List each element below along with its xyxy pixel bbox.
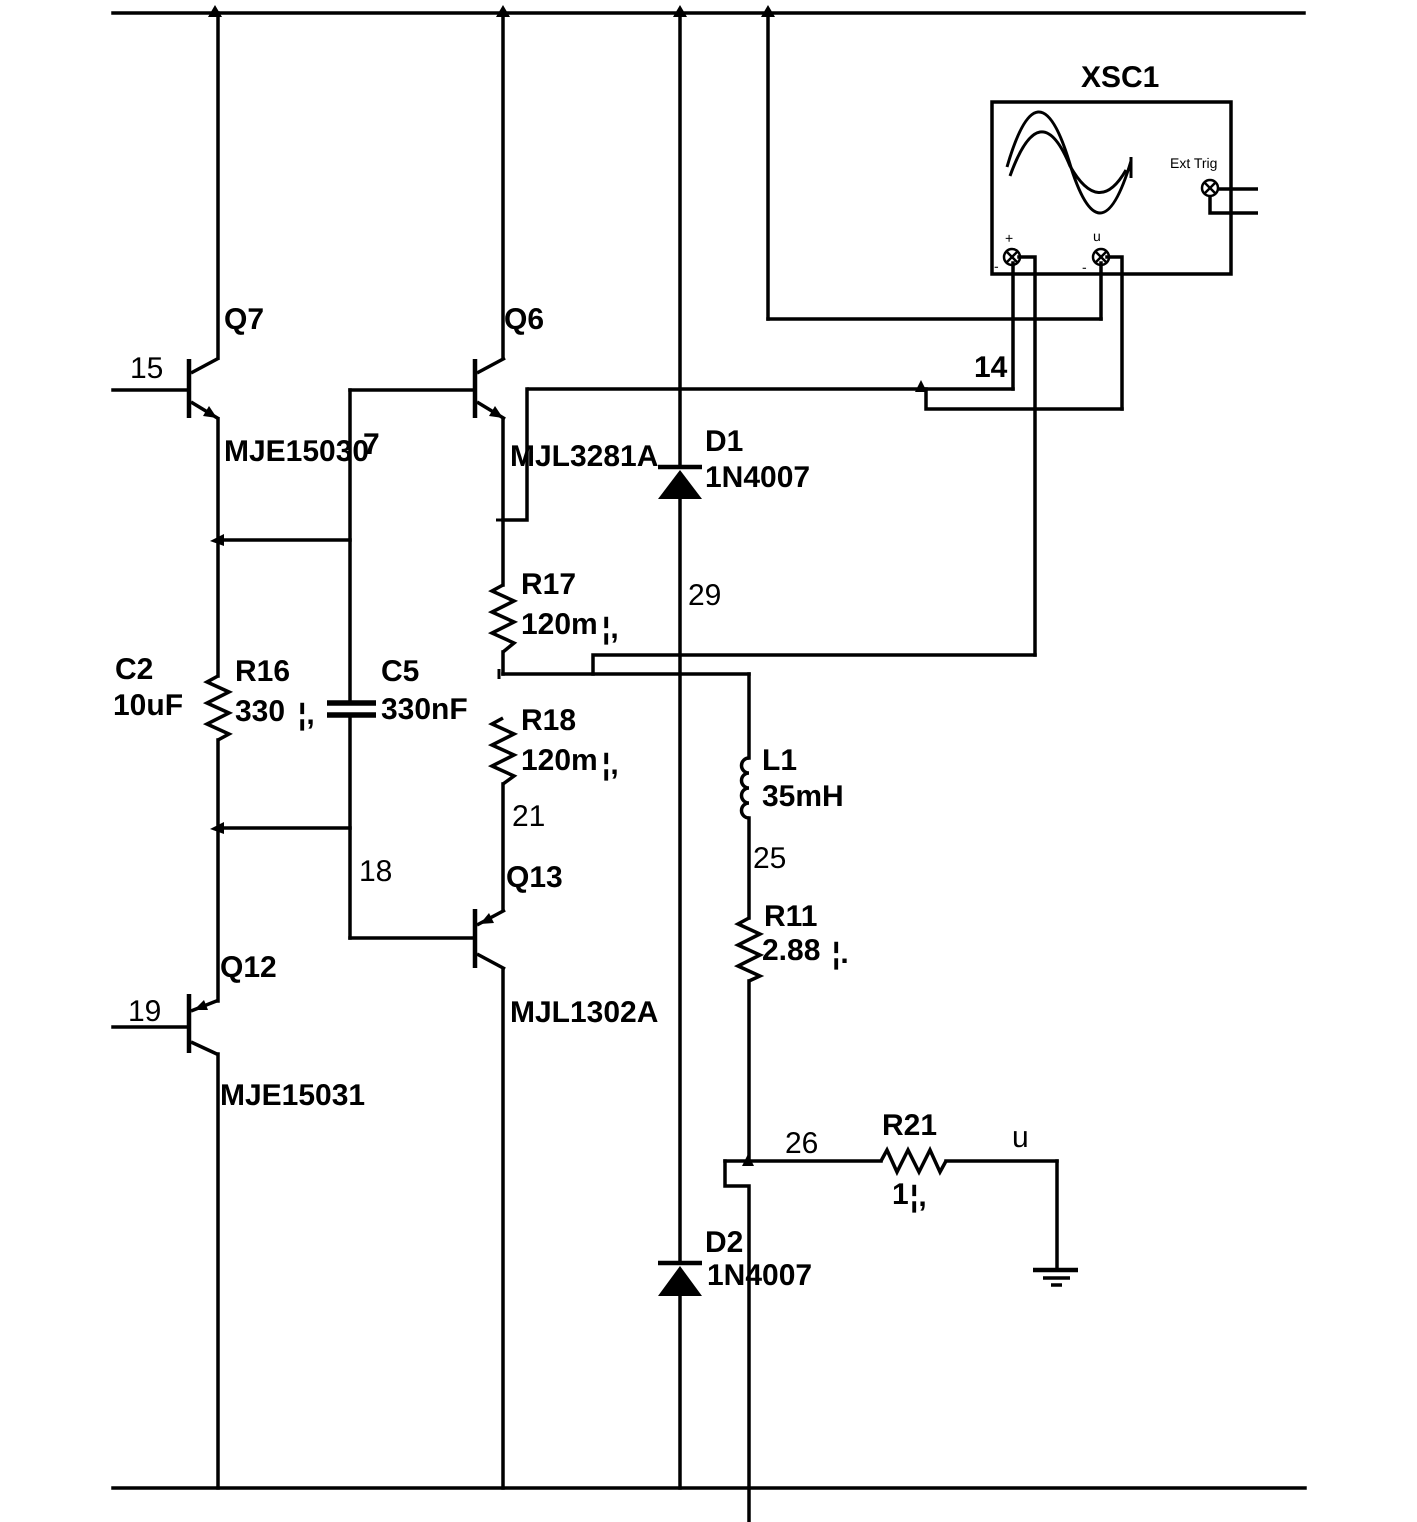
svg-text:15: 15: [130, 352, 163, 385]
resistor R11: [738, 918, 760, 981]
oscilloscope terminal Ext: [1202, 180, 1218, 196]
svg-text:-: -: [1082, 259, 1087, 275]
resistor R21: [881, 1150, 946, 1172]
wire L1 to R11 node 25: [747, 818, 751, 918]
svg-text:330: 330: [235, 695, 285, 728]
wire Q12 collector to bottom rail: [216, 1054, 220, 1488]
transistor Q13: [475, 909, 505, 969]
wire Q6 emitter down to R17: [501, 419, 505, 585]
wire Q12 base stub node 19: [113, 1025, 187, 1029]
wire Q7 collector to top rail: [216, 13, 220, 358]
wire junction Q7 emitter to Q6 base column: [218, 538, 350, 542]
svg-text:Ext Trig: Ext Trig: [1170, 155, 1217, 171]
svg-text:¦.: ¦.: [832, 937, 849, 970]
ground: [1033, 1270, 1078, 1285]
junction top rail at Q7: [208, 5, 222, 17]
wire scope A minus stub: [1019, 257, 1035, 655]
svg-text:19: 19: [128, 995, 161, 1028]
svg-text:Q13: Q13: [506, 861, 563, 894]
junction output node: [498, 669, 501, 679]
svg-text:+: +: [1005, 230, 1013, 246]
svg-text:C2: C2: [115, 653, 153, 686]
wire node 14 horizontal: [529, 387, 1013, 391]
svg-text:¦,: ¦,: [602, 748, 619, 781]
svg-text:Q7: Q7: [224, 303, 264, 336]
junction Q7 emitter line: [210, 534, 224, 546]
junction top rail at scope B: [761, 5, 775, 17]
svg-text:¦,: ¦,: [910, 1180, 927, 1213]
wire Q7 emitter down: [216, 419, 220, 540]
svg-text:R18: R18: [521, 704, 576, 737]
svg-text:MJE15030: MJE15030: [224, 435, 369, 468]
svg-text:Q6: Q6: [504, 303, 544, 336]
wire D2 to bottom rail: [678, 1297, 682, 1488]
transistor Q12: [189, 994, 219, 1055]
svg-text:u: u: [1093, 228, 1101, 244]
wire Q12 emitter up: [216, 828, 220, 1001]
svg-text:25: 25: [753, 842, 786, 875]
svg-text:18: 18: [359, 855, 392, 888]
wire scope B minus stub: [1107, 257, 1122, 409]
wire R17 to output junction: [501, 652, 505, 674]
svg-text:MJL1302A: MJL1302A: [510, 996, 658, 1029]
svg-text:7: 7: [363, 428, 380, 461]
svg-text:XSC1: XSC1: [1081, 61, 1159, 94]
svg-text:R11: R11: [764, 900, 817, 933]
wire ext trig stub upper: [1218, 187, 1258, 191]
svg-text:29: 29: [688, 579, 721, 612]
svg-text:10uF: 10uF: [113, 689, 183, 722]
diode D2: [658, 1263, 702, 1296]
wire output node to L1: [503, 672, 749, 676]
svg-text:1: 1: [892, 1178, 909, 1211]
svg-text:R17: R17: [521, 568, 576, 601]
transistor Q6: [475, 358, 505, 419]
svg-text:330nF: 330nF: [381, 693, 468, 726]
wire ground lead: [1055, 1161, 1059, 1270]
inductor L1: [742, 758, 750, 818]
oscilloscope sine wave: [1007, 112, 1131, 213]
junction lower line: [210, 822, 224, 834]
wire Q7 base stub node 15: [113, 388, 187, 392]
wire C5 column upper: [348, 390, 352, 700]
svg-text:L1: L1: [762, 744, 797, 777]
svg-text:D2: D2: [705, 1226, 743, 1259]
junction Q6 emitter node 14: [496, 519, 510, 522]
svg-text:-: -: [994, 258, 999, 274]
resistor R18: [492, 718, 514, 784]
wire scope B to top rail column: [766, 13, 770, 319]
wire scope A terminal vertical: [1011, 263, 1015, 389]
svg-text:120m: 120m: [521, 744, 598, 777]
junction node 26 R11: [742, 1154, 754, 1166]
svg-text:21: 21: [512, 800, 545, 833]
wire R16 top lead: [216, 540, 220, 676]
resistor R17: [492, 585, 514, 652]
wire node 26 right segment to ground column: [946, 1159, 1057, 1163]
wire D1 anode column from top rail: [678, 13, 682, 467]
svg-text:2.88: 2.88: [762, 934, 820, 967]
svg-text:1N4007: 1N4007: [707, 1259, 812, 1292]
junction top rail at D1 column: [673, 5, 687, 17]
svg-text:u: u: [1012, 1121, 1029, 1154]
wire scope B horizontal: [768, 317, 1101, 321]
transistor Q7: [189, 358, 219, 419]
oscilloscope terminal B: [1093, 249, 1109, 265]
resistor R16: [207, 676, 229, 740]
wire node 26 jog down to bottom edge: [725, 1161, 749, 1522]
diode D1: [658, 467, 702, 499]
svg-text:14: 14: [974, 351, 1008, 384]
wire R18 bottom to Q13 emitter: [501, 784, 505, 909]
wire node 26 left segment: [725, 1159, 881, 1163]
svg-text:Q12: Q12: [220, 951, 277, 984]
junction top rail at Q6: [496, 5, 510, 17]
svg-text:R21: R21: [882, 1109, 937, 1142]
wire R16 bottom lead: [216, 740, 220, 828]
svg-text:1N4007: 1N4007: [705, 461, 810, 494]
wire R11 bottom to node 26: [747, 981, 751, 1161]
svg-text:¦,: ¦,: [602, 612, 619, 645]
wire L1 top lead: [747, 674, 751, 758]
capacitor C5: [327, 703, 376, 715]
oscilloscope XSC1 box: [992, 102, 1231, 274]
svg-text:26: 26: [785, 1127, 818, 1160]
wire bottom supply rail: [113, 1486, 1305, 1490]
wire Q13 base wire node 18: [350, 936, 473, 940]
wire node 29 D1 to D2: [678, 499, 682, 1263]
wire scope B terminal vertical: [1099, 263, 1103, 319]
wire node 14 to B minus: [926, 389, 1122, 409]
wire junction line lower: [218, 826, 350, 830]
wire Q6 base wire: [350, 388, 473, 392]
wire ext trig stub lower: [1210, 196, 1258, 213]
svg-text:R16: R16: [235, 655, 290, 688]
svg-text:¦,: ¦,: [298, 698, 315, 731]
wire node 14 drop to Q6 emitter: [503, 389, 527, 520]
svg-text:120m: 120m: [521, 608, 598, 641]
wire C5 column lower: [348, 717, 352, 938]
wire Q13 collector to bottom rail: [501, 969, 505, 1488]
oscilloscope terminal A: [1004, 249, 1020, 265]
svg-text:35mH: 35mH: [762, 780, 844, 813]
wire scope tap stub: [593, 655, 1035, 674]
wire top supply rail: [113, 11, 1304, 15]
svg-text:MJL3281A: MJL3281A: [510, 440, 658, 473]
svg-text:D1: D1: [705, 425, 743, 458]
svg-text:MJE15031: MJE15031: [220, 1079, 365, 1112]
junction node 14 B minus: [915, 380, 927, 392]
svg-text:C5: C5: [381, 655, 419, 688]
wire Q6 collector to top rail: [501, 13, 505, 358]
